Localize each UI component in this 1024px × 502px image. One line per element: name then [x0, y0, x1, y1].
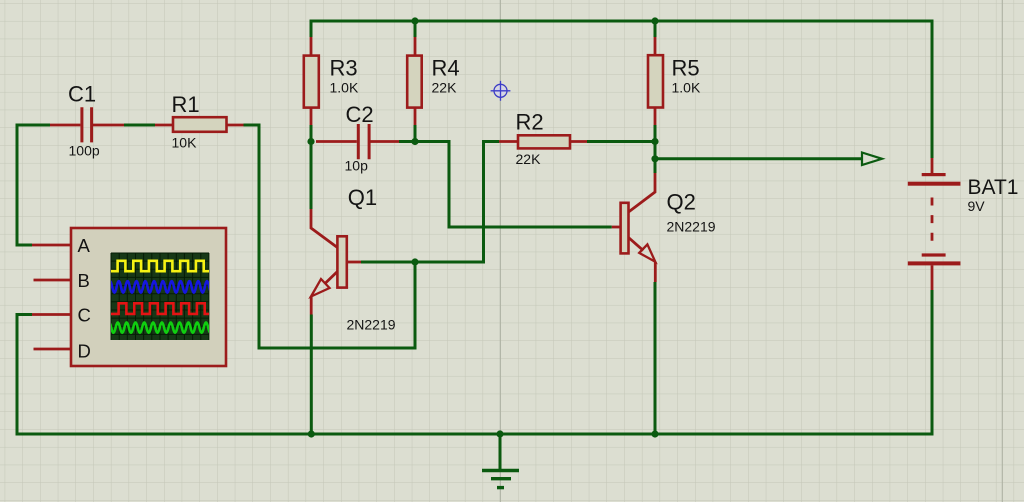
origin marker [491, 81, 511, 101]
svg-text:100p: 100p [69, 143, 100, 159]
oscilloscope pin B [34, 279, 72, 282]
oscilloscope body [71, 228, 226, 366]
output arrow terminal [862, 153, 882, 166]
ground [482, 471, 519, 488]
sheet right darker grid line [1001, 0, 1003, 502]
oscilloscope pin C [32, 313, 71, 316]
wire R5 bottom stub [654, 125, 657, 142]
resistor R4 leads [414, 37, 417, 125]
svg-text:Q2: Q2 [667, 190, 696, 215]
capacitor C1 leads [50, 124, 124, 127]
svg-text:1.0K: 1.0K [330, 80, 359, 96]
svg-text:R3: R3 [330, 56, 358, 81]
wire C1 to R1 link [124, 124, 155, 127]
resistor R3 leads [310, 37, 313, 125]
battery BAT1 top lead [931, 158, 934, 173]
svg-text:22K: 22K [516, 151, 542, 167]
wire output to arrow [655, 157, 862, 160]
svg-text:9V: 9V [968, 198, 986, 214]
wire R1 right down and to Q1 base node [244, 125, 416, 348]
transistor Q2 collector lead [629, 173, 656, 212]
svg-text:2N2219: 2N2219 [667, 219, 716, 235]
svg-text:22K: 22K [432, 80, 458, 96]
transistor Q2 bar [621, 203, 629, 254]
scope trace B blue sine [108, 281, 214, 293]
scope trace A yellow square [111, 261, 209, 271]
svg-text:10K: 10K [172, 135, 198, 151]
battery BAT1 dashed middle [931, 198, 934, 242]
wire scope input C to ground rail and bottom rail to battery bottom [17, 290, 932, 434]
transistor Q2 base lead [612, 226, 621, 229]
svg-text:D: D [78, 341, 91, 362]
battery BAT1 top cell [922, 173, 946, 176]
battery BAT1 bottom lead [931, 265, 934, 290]
scope trace C red square [111, 303, 209, 314]
wire R5 top stub [654, 21, 657, 37]
resistor R2 leads [499, 140, 587, 143]
wire Q1 emitter to rail [310, 315, 313, 435]
wire R2 right to R5 node [587, 140, 655, 143]
wire ground stem [499, 434, 502, 469]
svg-text:10p: 10p [345, 158, 369, 174]
svg-text:C1: C1 [68, 82, 96, 107]
transistor Q1 base lead [347, 261, 361, 264]
svg-text:Q1: Q1 [348, 185, 377, 210]
scope trace D green sine [107, 322, 217, 332]
capacitor C2 [358, 124, 369, 159]
resistor R1 [173, 117, 227, 132]
wire R4 bottom stub [414, 125, 417, 142]
resistor R1 leads [155, 124, 244, 127]
wire C1 left down to scope input A [17, 125, 50, 245]
resistor R5 [648, 55, 663, 107]
resistor R5 leads [654, 37, 657, 125]
wire node R4/C2 to Q2 base [415, 142, 612, 228]
svg-text:BAT1: BAT1 [968, 176, 1019, 199]
transistor Q1 bar [337, 236, 346, 287]
battery BAT1 bottom cell [922, 253, 946, 256]
svg-text:R2: R2 [516, 110, 544, 135]
svg-text:R5: R5 [672, 56, 700, 81]
resistor R3 [304, 56, 319, 108]
wire R4 top stub [414, 21, 417, 37]
svg-text:2N2219: 2N2219 [347, 317, 396, 333]
svg-text:C: C [78, 305, 91, 326]
capacitor C1 [82, 107, 92, 142]
oscilloscope pin A [32, 244, 71, 247]
svg-text:R1: R1 [172, 92, 200, 117]
capacitor C2 leads [316, 140, 399, 143]
oscilloscope pin D [34, 348, 72, 351]
transistor Q2 emitter lead [629, 238, 656, 283]
sheet mid darker grid line [499, 0, 501, 502]
svg-text:C2: C2 [346, 102, 374, 127]
wire Q2 emitter to rail [654, 282, 657, 434]
wire C2 right to R4 node [399, 140, 415, 143]
transistor Q1 collector lead [311, 209, 337, 248]
resistor R4 [407, 56, 422, 108]
wire top power rail from R3 over R4,R5 to battery top [311, 21, 932, 158]
oscilloscope screen [111, 253, 209, 340]
svg-text:R4: R4 [432, 56, 460, 81]
transistor Q1 emitter lead [311, 272, 337, 315]
transistor Q2 emitter arrow [639, 244, 655, 261]
wire Q1 base to R2 left [361, 142, 499, 263]
svg-text:B: B [78, 270, 90, 291]
svg-text:A: A [78, 235, 91, 256]
wire R5 node down to Q2 collector [654, 142, 657, 174]
resistor R2 [518, 135, 570, 148]
svg-text:1.0K: 1.0K [672, 80, 701, 96]
transistor Q1 emitter arrow [311, 279, 330, 297]
wire R3 bottom to Q1 collector [310, 125, 313, 209]
